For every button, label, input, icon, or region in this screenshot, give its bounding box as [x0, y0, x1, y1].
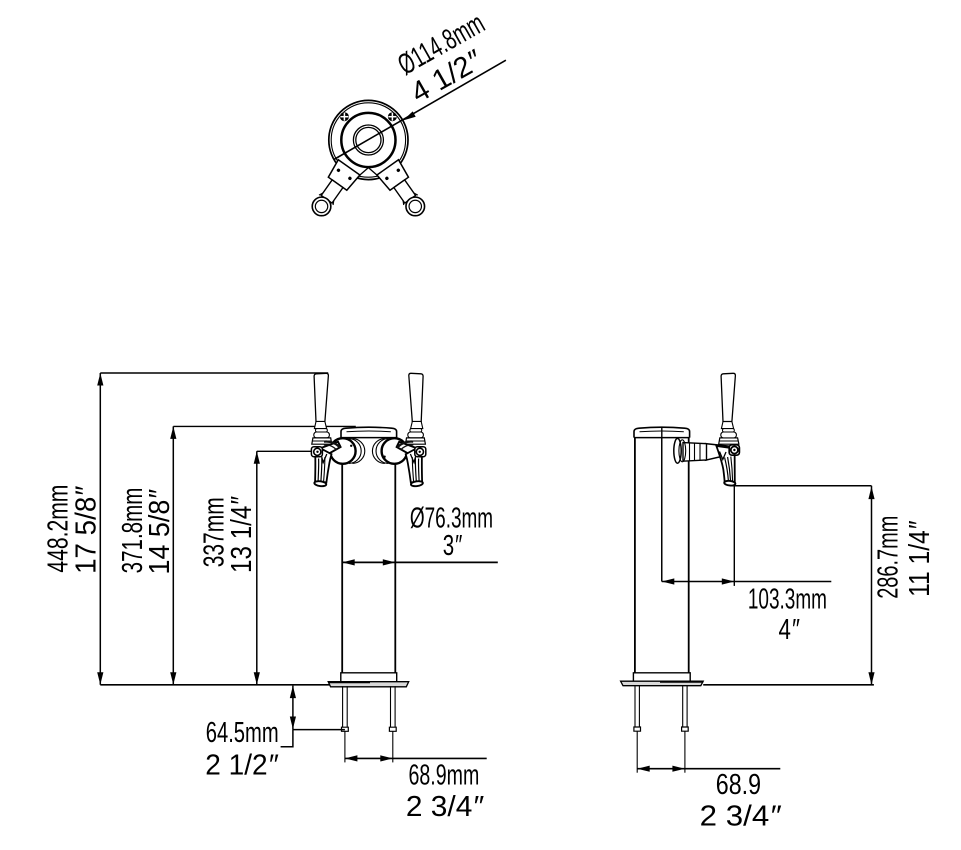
svg-text:68.9: 68.9 — [716, 769, 761, 801]
svg-text:2 1/2″: 2 1/2″ — [205, 749, 279, 781]
svg-text:14 5/8″: 14 5/8″ — [144, 489, 176, 575]
svg-text:2 3/4″: 2 3/4″ — [406, 791, 485, 823]
svg-text:4″: 4″ — [779, 614, 801, 646]
svg-text:2 3/4″: 2 3/4″ — [700, 800, 782, 832]
svg-text:13 1/4″: 13 1/4″ — [226, 496, 258, 573]
svg-text:11 1/4″: 11 1/4″ — [904, 520, 936, 597]
svg-text:64.5mm: 64.5mm — [206, 717, 279, 749]
svg-text:68.9mm: 68.9mm — [409, 760, 480, 792]
svg-text:3″: 3″ — [443, 530, 463, 562]
svg-text:286.7mm: 286.7mm — [873, 516, 905, 599]
svg-text:103.3mm: 103.3mm — [748, 583, 827, 615]
svg-text:17 5/8″: 17 5/8″ — [71, 485, 103, 574]
